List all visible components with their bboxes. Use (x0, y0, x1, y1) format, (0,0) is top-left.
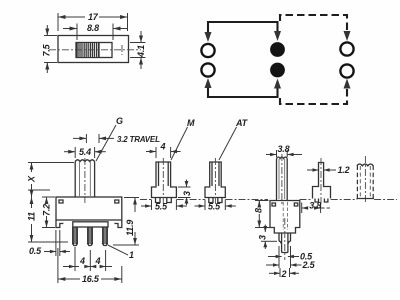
top view slot opening (76, 43, 112, 58)
front view body (56, 197, 122, 220)
svg-text:8.8: 8.8 (87, 23, 99, 33)
M view pin stubs (156, 198, 172, 203)
svg-text:G: G (116, 116, 123, 126)
svg-text:5.5: 5.5 (208, 202, 221, 212)
side view body (270, 201, 300, 234)
side view stem (277, 157, 288, 200)
dimension 7.5 (42, 25, 58, 73)
label M with leader (171, 118, 195, 160)
svg-text:1.2: 1.2 (338, 165, 350, 175)
top view body outline (58, 36, 129, 63)
dimension 2 (269, 268, 299, 279)
svg-text:5.4: 5.4 (79, 147, 91, 157)
global horizontal centerline (140, 199, 397, 201)
schematic solid link top (205, 22, 282, 42)
label G with leader (96, 116, 123, 161)
schematic dashed link top (280, 15, 351, 41)
dimension 8 body height (254, 201, 275, 228)
front view pin 3 (102, 227, 108, 246)
dimension 3.2 TRAVEL (73, 134, 160, 144)
side view pin centerline (284, 218, 286, 260)
dimension 16.5 (58, 248, 122, 284)
svg-text:11.9: 11.9 (125, 220, 135, 236)
front view base plate and lugs (56, 220, 122, 228)
dimension 8.8 (63, 23, 127, 40)
svg-text:3: 3 (182, 191, 192, 196)
svg-text:4: 4 (95, 256, 101, 266)
dimension 1 pin leader (108, 245, 134, 260)
dimension 3 M base height (178, 180, 192, 206)
svg-text:4: 4 (79, 256, 85, 266)
svg-text:AT: AT (235, 118, 249, 128)
top view knob hatched (77, 43, 100, 57)
svg-text:7.2: 7.2 (42, 204, 52, 216)
schematic contact 2 open (201, 63, 214, 76)
front view knob (75, 160, 94, 197)
dimension 11.9 (113, 198, 139, 246)
svg-text:16.5: 16.5 (82, 274, 100, 284)
dimension 3.8 stem top (266, 144, 302, 157)
dimension 5.5 AT base (195, 200, 236, 212)
dimension 3.8 offset right (302, 201, 330, 214)
dimension 4 4 pin pitch (63, 247, 112, 271)
AT view outline (205, 162, 225, 198)
dimension 4.1 (130, 31, 146, 69)
schematic contact 6 open (340, 64, 353, 77)
M view outline (152, 162, 177, 198)
schematic dashed link bottom (280, 79, 351, 105)
front view knob centerline (84, 158, 86, 203)
schematic contact 4 filled (270, 63, 285, 78)
dimension X (27, 163, 75, 198)
svg-text:7.5: 7.5 (42, 43, 52, 56)
AT view pin stubs (209, 198, 222, 203)
front view pin 2 (87, 227, 93, 246)
svg-text:11: 11 (27, 212, 37, 221)
schematic contact 5 open (340, 42, 353, 55)
schematic contact 1 open (201, 44, 214, 57)
dimension 4 M knob (146, 142, 181, 159)
svg-text:3: 3 (258, 235, 268, 240)
svg-text:2: 2 (281, 269, 287, 279)
dimension 17 (58, 12, 128, 31)
svg-text:4: 4 (160, 142, 166, 152)
svg-text:17: 17 (88, 12, 99, 22)
dimension 3 neck height (258, 225, 278, 250)
dimension 2.5 neck width (266, 246, 316, 270)
side view neck and pin (279, 233, 291, 253)
svg-text:8: 8 (254, 208, 264, 213)
label AT with leader (219, 118, 249, 160)
svg-text:3.2 TRAVEL: 3.2 TRAVEL (117, 135, 160, 144)
M view centerline (162, 158, 164, 204)
schematic contact 3 filled (270, 42, 285, 57)
svg-text:M: M (187, 118, 195, 128)
dimension 0.5 pin thickness (268, 252, 313, 262)
svg-text:X: X (27, 175, 37, 183)
dimension 7.2 (42, 197, 56, 228)
small profile centerline (320, 158, 322, 203)
AT view centerline (214, 158, 216, 204)
svg-text:1: 1 (129, 250, 134, 260)
svg-text:5.5: 5.5 (155, 202, 168, 212)
front view pin 1 (72, 227, 78, 246)
dimension 5.4 (64, 147, 106, 158)
side view stem centerline (281, 154, 283, 205)
dimension 0.5 left lug (29, 230, 70, 256)
svg-text:0.5: 0.5 (29, 246, 42, 256)
dimension 11 (27, 197, 69, 242)
svg-text:4.1: 4.1 (136, 45, 146, 58)
small profile with 1.2 stem (313, 163, 331, 203)
dimension 1.2 (307, 165, 350, 175)
top view centerline (49, 45, 141, 55)
far right knob profile (phantom position) (357, 156, 375, 203)
svg-text:2.5: 2.5 (302, 260, 316, 270)
dimension 5.5 M base (141, 200, 187, 212)
svg-text:3.8: 3.8 (278, 144, 290, 154)
schematic solid link bottom (205, 78, 282, 97)
